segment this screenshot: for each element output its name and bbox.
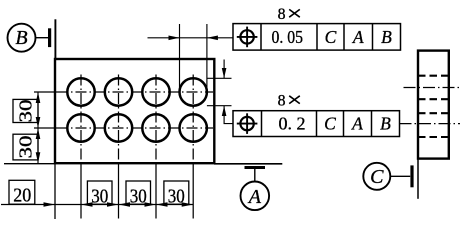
side view outline xyxy=(418,51,449,159)
arrowhead down at bottom edge xyxy=(36,152,41,163)
extension line: bottom edge to datum A xyxy=(214,163,282,165)
centerline row 2 xyxy=(34,127,57,129)
extension line: hole top tangent (right side) xyxy=(207,77,232,79)
svg-text:A: A xyxy=(351,114,363,134)
basic dim box 30 (bottom 3) xyxy=(164,181,189,208)
arrowhead pointing down at top tangent xyxy=(222,68,227,78)
svg-text:B: B xyxy=(15,27,27,49)
centerline col 3 xyxy=(155,75,157,164)
svg-text:0. 05: 0. 05 xyxy=(271,27,303,47)
svg-text:20: 20 xyxy=(13,186,31,207)
svg-text:C: C xyxy=(325,27,337,47)
svg-text:C: C xyxy=(370,166,384,188)
extension line: side view left edge down to datum C xyxy=(417,159,419,199)
basic dim box 30 (lower left, rotated) xyxy=(13,134,38,160)
part outline (main view) xyxy=(55,59,214,163)
dimension line vertical (upper segment) xyxy=(223,60,225,79)
hole row1 col4 xyxy=(180,78,207,105)
svg-text:B: B xyxy=(381,27,392,47)
label 8x (FCF1) xyxy=(278,6,300,23)
FCF1 frame xyxy=(233,24,401,50)
datum C xyxy=(363,163,412,190)
svg-text:30: 30 xyxy=(16,100,36,123)
basic dim box 30 (bottom 2) xyxy=(126,181,151,208)
basic dim box 30 (bottom 1) xyxy=(87,181,112,208)
hidden line hole row1 bottom xyxy=(418,98,449,100)
arrowhead up at row1 xyxy=(36,92,41,103)
datum B xyxy=(8,24,50,52)
hole row2 col4 xyxy=(180,114,207,141)
dimension line to FCF1 xyxy=(148,37,234,39)
position symbol FCF1 xyxy=(237,27,258,48)
left vertical dimension line 30/30 xyxy=(37,92,39,163)
svg-text:8: 8 xyxy=(278,6,286,23)
wire: left edge extension line up to datum B xyxy=(54,19,56,60)
svg-text:8: 8 xyxy=(278,92,286,109)
svg-text:30: 30 xyxy=(16,136,36,159)
hole row1 col2 xyxy=(105,78,132,105)
arrowheads at row2 xyxy=(36,117,41,128)
arrowheads at col3 xyxy=(145,202,157,207)
svg-text:B: B xyxy=(380,114,391,134)
centerline col 2 xyxy=(118,75,120,164)
arrowhead left at col1 xyxy=(81,202,93,207)
side view centerline row1 xyxy=(404,87,461,89)
side view centerline row2 + leader from FCF2 xyxy=(400,123,461,125)
FCF2 frame xyxy=(233,111,400,137)
hole row1 col3 xyxy=(142,78,169,105)
hole row1 col1 xyxy=(67,78,94,105)
extension line: hole bottom tangent (right side) xyxy=(207,105,232,107)
datum A xyxy=(241,168,270,211)
hidden line hole row1 top xyxy=(418,75,449,77)
hole row2 col1 xyxy=(67,114,94,141)
hidden line hole row2 bottom xyxy=(418,136,449,138)
extension line: hole right tangent xyxy=(206,24,208,92)
basic dim box 30 (upper left, rotated) xyxy=(13,99,38,122)
hidden line hole row2 top xyxy=(418,112,449,114)
svg-text:C: C xyxy=(324,114,336,134)
arrowhead at right tangent xyxy=(207,36,218,41)
dimension line vertical (lower segment) + leader to FCF2 xyxy=(224,106,233,124)
centerline row 1 xyxy=(34,91,57,93)
position symbol FCF2 xyxy=(237,113,258,134)
extension line: hole left tangent xyxy=(179,24,181,92)
centerline col 1 xyxy=(80,75,82,164)
arrowhead at left tangent xyxy=(169,36,180,41)
arrowheads at col2 xyxy=(107,202,119,207)
arrowhead pointing up at bottom tangent xyxy=(222,106,227,116)
hole row2 col3 xyxy=(142,114,169,141)
svg-text:A: A xyxy=(352,27,364,47)
basic dim box 20 xyxy=(9,180,35,206)
arrowhead right at part edge xyxy=(44,202,56,207)
extension line: bottom edge to left xyxy=(4,163,55,165)
hole row2 col2 xyxy=(105,114,132,141)
centerline col 4 xyxy=(192,75,194,164)
svg-text:A: A xyxy=(247,186,262,208)
extension line: left edge below part xyxy=(54,163,56,219)
bottom dimension line xyxy=(1,204,193,206)
svg-text:0. 2: 0. 2 xyxy=(279,114,306,134)
arrowhead right at col4 xyxy=(182,202,194,207)
label 8x (FCF2) xyxy=(278,92,300,109)
